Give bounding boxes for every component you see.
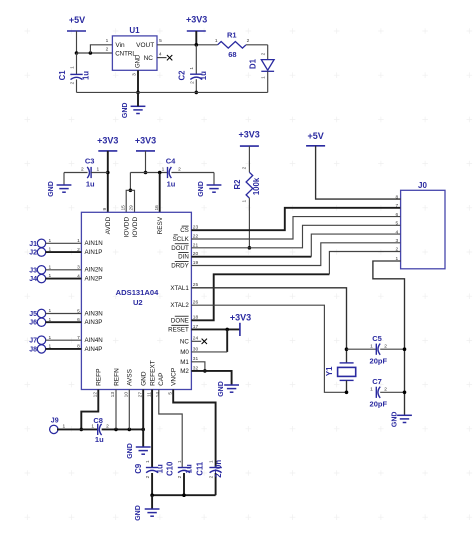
svg-text:REFP: REFP bbox=[96, 369, 103, 386]
svg-text:DOUT: DOUT bbox=[171, 245, 189, 252]
svg-text:1: 1 bbox=[70, 66, 76, 69]
svg-text:CS: CS bbox=[180, 227, 189, 234]
svg-text:29: 29 bbox=[129, 205, 135, 211]
svg-text:J9: J9 bbox=[51, 418, 59, 425]
svg-text:XTAL1: XTAL1 bbox=[170, 285, 189, 292]
svg-text:1u: 1u bbox=[86, 179, 95, 188]
svg-text:DONE: DONE bbox=[171, 317, 189, 324]
svg-text:1: 1 bbox=[242, 200, 248, 203]
svg-text:2: 2 bbox=[384, 386, 387, 392]
svg-text:2: 2 bbox=[81, 167, 84, 173]
svg-text:Vin: Vin bbox=[115, 42, 125, 49]
svg-text:REFEXT: REFEXT bbox=[150, 360, 157, 386]
svg-text:RESET: RESET bbox=[168, 326, 189, 333]
svg-text:20pF: 20pF bbox=[370, 400, 388, 409]
svg-text:+3V3: +3V3 bbox=[135, 135, 156, 145]
svg-text:J5: J5 bbox=[29, 311, 37, 318]
svg-text:GND: GND bbox=[136, 54, 142, 68]
svg-text:1: 1 bbox=[370, 343, 373, 349]
svg-text:270n: 270n bbox=[214, 460, 223, 478]
svg-text:C4: C4 bbox=[166, 156, 176, 165]
svg-text:2: 2 bbox=[384, 343, 387, 349]
svg-text:1u: 1u bbox=[199, 71, 208, 80]
svg-text:2: 2 bbox=[260, 52, 266, 55]
svg-text:SCLK: SCLK bbox=[173, 236, 190, 243]
svg-text:10: 10 bbox=[124, 392, 130, 398]
svg-text:9: 9 bbox=[102, 208, 108, 211]
svg-text:J6: J6 bbox=[29, 320, 37, 327]
svg-text:1u: 1u bbox=[185, 464, 194, 473]
svg-text:J1: J1 bbox=[29, 241, 37, 248]
svg-text:AIN3N: AIN3N bbox=[85, 310, 103, 317]
svg-text:AIN3P: AIN3P bbox=[85, 319, 103, 326]
svg-text:AIN4N: AIN4N bbox=[85, 337, 103, 344]
svg-text:AIN4P: AIN4P bbox=[85, 346, 103, 353]
svg-text:C1: C1 bbox=[58, 70, 67, 81]
svg-text:2: 2 bbox=[178, 167, 181, 173]
svg-text:GND: GND bbox=[218, 381, 225, 397]
svg-text:GND: GND bbox=[198, 181, 205, 197]
svg-text:16: 16 bbox=[154, 205, 160, 211]
svg-text:GND: GND bbox=[141, 371, 148, 386]
svg-text:2: 2 bbox=[177, 475, 183, 478]
svg-text:20pF: 20pF bbox=[370, 356, 388, 365]
svg-text:J7: J7 bbox=[29, 338, 37, 345]
svg-text:C3: C3 bbox=[85, 156, 95, 165]
svg-text:13: 13 bbox=[110, 392, 116, 398]
svg-text:J3: J3 bbox=[29, 267, 37, 274]
svg-text:1u: 1u bbox=[156, 464, 165, 473]
svg-text:R1: R1 bbox=[227, 31, 237, 40]
svg-text:1: 1 bbox=[209, 460, 215, 463]
svg-text:+3V3: +3V3 bbox=[97, 135, 118, 145]
svg-text:CAP: CAP bbox=[158, 373, 165, 386]
svg-text:5: 5 bbox=[159, 38, 162, 44]
svg-text:CNTRL: CNTRL bbox=[115, 50, 136, 57]
svg-text:1: 1 bbox=[370, 386, 373, 392]
svg-text:C9: C9 bbox=[134, 463, 143, 474]
svg-text:GND: GND bbox=[392, 412, 399, 428]
svg-text:2: 2 bbox=[247, 38, 250, 44]
svg-text:C10: C10 bbox=[165, 461, 174, 476]
svg-text:IOVDD: IOVDD bbox=[132, 217, 139, 238]
svg-text:68: 68 bbox=[228, 50, 236, 59]
svg-text:2: 2 bbox=[106, 47, 109, 53]
svg-text:1: 1 bbox=[96, 166, 99, 172]
svg-text:J2: J2 bbox=[29, 250, 37, 257]
svg-text:XTAL2: XTAL2 bbox=[170, 302, 189, 309]
svg-text:VOUT: VOUT bbox=[136, 42, 154, 49]
svg-text:1: 1 bbox=[189, 67, 195, 70]
svg-text:1: 1 bbox=[145, 460, 151, 463]
svg-text:M2: M2 bbox=[180, 368, 189, 375]
svg-text:AIN2P: AIN2P bbox=[85, 276, 103, 283]
svg-text:1: 1 bbox=[260, 76, 266, 79]
svg-text:3: 3 bbox=[131, 73, 137, 76]
svg-text:U2: U2 bbox=[133, 298, 143, 307]
svg-text:2: 2 bbox=[145, 475, 151, 478]
svg-text:IOVDD: IOVDD bbox=[124, 217, 131, 238]
svg-text:VNCP: VNCP bbox=[171, 368, 178, 386]
svg-text:C8: C8 bbox=[93, 416, 103, 425]
svg-text:C7: C7 bbox=[372, 377, 382, 386]
svg-text:+3V3: +3V3 bbox=[186, 15, 207, 25]
svg-text:2: 2 bbox=[189, 81, 195, 84]
svg-text:J4: J4 bbox=[29, 276, 37, 283]
svg-text:ADS131A04: ADS131A04 bbox=[116, 288, 159, 297]
svg-text:DRDY: DRDY bbox=[171, 263, 189, 270]
svg-text:1: 1 bbox=[162, 167, 165, 173]
svg-text:2: 2 bbox=[70, 81, 76, 84]
svg-text:+5V: +5V bbox=[307, 131, 323, 141]
svg-text:1u: 1u bbox=[95, 435, 104, 444]
svg-text:GND: GND bbox=[122, 103, 129, 119]
svg-text:100k: 100k bbox=[252, 177, 261, 195]
svg-text:2: 2 bbox=[209, 475, 215, 478]
svg-text:J8: J8 bbox=[29, 346, 37, 353]
svg-text:GND: GND bbox=[127, 443, 134, 459]
svg-text:AIN1N: AIN1N bbox=[85, 240, 103, 247]
svg-text:C5: C5 bbox=[372, 334, 382, 343]
svg-text:4: 4 bbox=[159, 52, 162, 58]
svg-text:GND: GND bbox=[135, 505, 142, 521]
svg-text:1u: 1u bbox=[167, 179, 176, 188]
svg-text:GND: GND bbox=[48, 181, 55, 197]
svg-text:J0: J0 bbox=[418, 181, 427, 190]
svg-text:NC: NC bbox=[144, 55, 154, 62]
svg-text:1: 1 bbox=[177, 460, 183, 463]
svg-text:AIN1P: AIN1P bbox=[85, 249, 103, 256]
svg-text:+5V: +5V bbox=[69, 15, 85, 25]
svg-text:M0: M0 bbox=[180, 349, 189, 356]
svg-text:1u: 1u bbox=[82, 71, 91, 80]
svg-text:2: 2 bbox=[242, 166, 248, 169]
svg-text:NC: NC bbox=[180, 338, 189, 345]
svg-text:+3V3: +3V3 bbox=[239, 130, 260, 140]
svg-text:1: 1 bbox=[106, 38, 109, 44]
svg-text:D1: D1 bbox=[248, 58, 257, 69]
svg-text:C2: C2 bbox=[177, 70, 186, 81]
svg-text:R2: R2 bbox=[233, 179, 242, 190]
svg-text:DIN: DIN bbox=[178, 254, 189, 261]
svg-text:RESV: RESV bbox=[157, 216, 164, 234]
svg-text:+3V3: +3V3 bbox=[230, 312, 251, 322]
svg-text:AIN2N: AIN2N bbox=[85, 267, 103, 274]
svg-text:Y1: Y1 bbox=[325, 366, 334, 376]
svg-text:1: 1 bbox=[91, 424, 94, 430]
svg-text:1: 1 bbox=[215, 38, 218, 44]
svg-text:15: 15 bbox=[120, 205, 126, 211]
svg-text:M1: M1 bbox=[180, 359, 189, 366]
svg-text:AVSS: AVSS bbox=[127, 368, 134, 386]
svg-text:C11: C11 bbox=[196, 461, 205, 476]
svg-text:14: 14 bbox=[155, 392, 161, 398]
svg-text:AVDD: AVDD bbox=[105, 216, 112, 234]
svg-text:U1: U1 bbox=[129, 26, 140, 35]
svg-text:REFN: REFN bbox=[113, 368, 120, 386]
